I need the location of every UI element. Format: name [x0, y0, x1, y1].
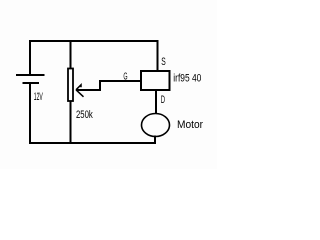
- motor M1: [142, 114, 170, 137]
- MOSFET Q1 body: [141, 71, 170, 90]
- svg-text:D: D: [161, 94, 165, 106]
- wire: potentiometer top lead (from top rail): [70, 41, 72, 68]
- battery B1 12V: [16, 75, 45, 83]
- value label 250k: [76, 109, 93, 121]
- wire: bottom rail: [29, 142, 156, 144]
- pin label G: [123, 72, 127, 83]
- wire: wiper step vertical: [99, 81, 101, 91]
- svg-text:S: S: [161, 56, 166, 68]
- svg-text:Motor: Motor: [177, 119, 203, 131]
- wire: left rail lower (battery - plate down to bottom rail): [29, 83, 31, 144]
- svg-text:G: G: [123, 72, 127, 83]
- wire: left rail upper (top rail down to battery + plate): [29, 40, 31, 75]
- pin label S: [161, 56, 166, 68]
- wire: source lead (top rail down to MOSFET): [157, 41, 159, 71]
- wire: gate wire to MOSFET: [99, 80, 141, 82]
- svg-text:12V: 12V: [34, 91, 43, 103]
- part label Motor: [177, 119, 203, 131]
- wire: wiper shaft horizontal: [76, 89, 100, 91]
- potentiometer wiper arrow: [76, 85, 84, 97]
- potentiometer R1 body: [68, 69, 73, 102]
- part label irf9540: [173, 73, 201, 85]
- wire: top rail from battery to MOSFET source: [29, 40, 159, 42]
- value label 12V: [34, 91, 43, 103]
- svg-text:irf95 40: irf95 40: [173, 73, 201, 85]
- wire: potentiometer bottom lead (to bottom rail): [70, 101, 72, 143]
- wire: motor bottom stub to bottom rail: [154, 136, 156, 145]
- wire: drain lead (MOSFET down to motor): [155, 90, 157, 114]
- svg-text:250k: 250k: [76, 109, 93, 121]
- pin label D: [161, 94, 165, 106]
